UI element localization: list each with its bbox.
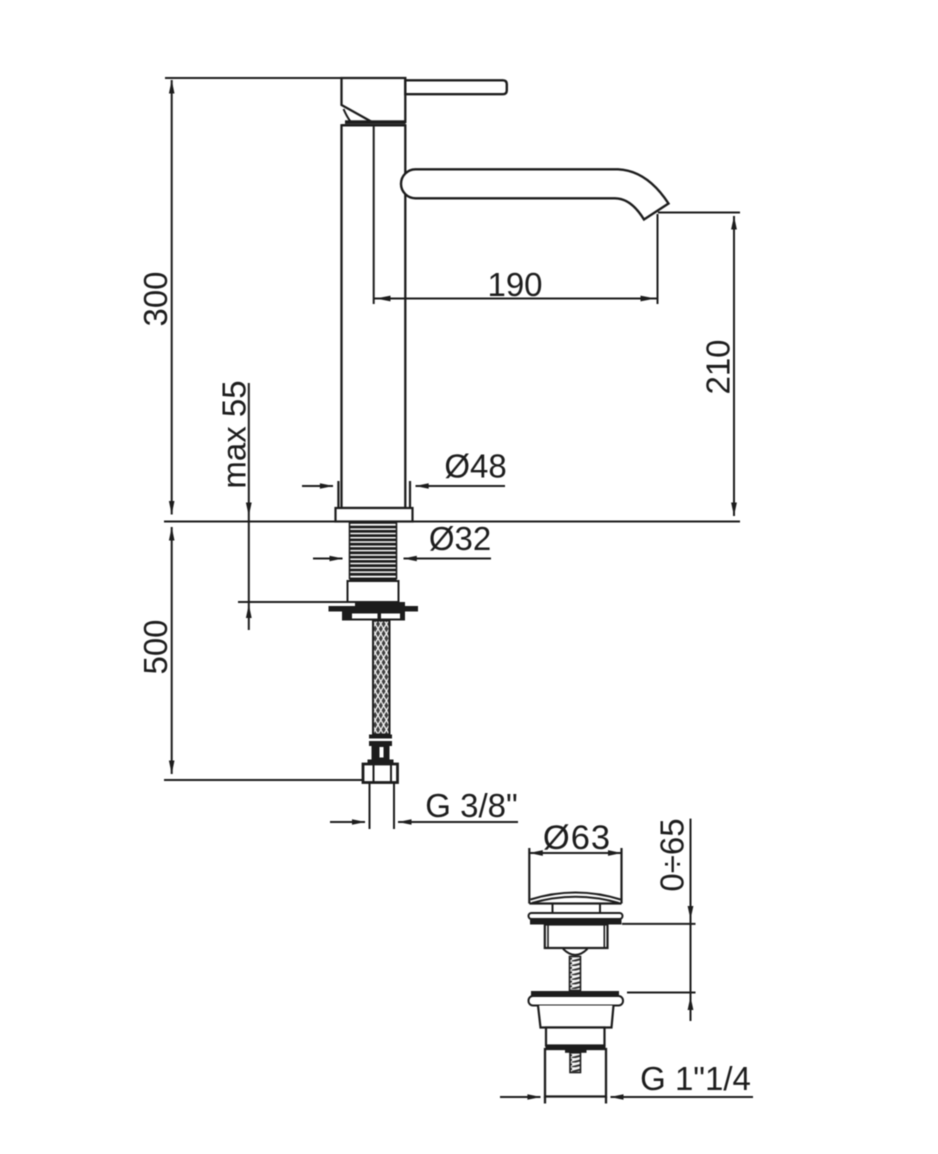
- dim G3/8 lines: [330, 821, 365, 823]
- cap bottom thick line: [345, 120, 406, 124]
- drain inset bottom thick bar: [546, 1046, 606, 1050]
- spout tip extension lines: [657, 214, 659, 304]
- dim max55 bottom extension: [238, 601, 355, 603]
- svg-text:Ø63: Ø63: [543, 819, 611, 857]
- svg-text:max 55: max 55: [216, 380, 253, 488]
- dim D32 lines: [313, 558, 343, 560]
- drain cap stem: [552, 904, 554, 914]
- dim 500 arrows: [169, 527, 175, 541]
- drain inset section: [546, 1028, 605, 1046]
- cartridge cap: [342, 78, 406, 122]
- dim 300 arrows: [169, 80, 175, 94]
- thread lines: [350, 527, 396, 574]
- dim 210 shaft: [733, 216, 735, 516]
- lever handle: [405, 80, 507, 94]
- svg-text:300: 300: [137, 271, 174, 326]
- svg-text:210: 210: [699, 339, 736, 394]
- dim 0-65 shaft: [690, 819, 692, 1021]
- mounting nut body: [355, 602, 405, 610]
- svg-text:Ø48: Ø48: [444, 448, 506, 485]
- dim G1-1/4 lines: [500, 1096, 541, 1098]
- dim G3/8 extension lines: [369, 783, 371, 829]
- dim D32 arrows: [330, 556, 344, 562]
- drain cap bottom: [529, 902, 621, 904]
- dim 190 arrows: [376, 296, 391, 302]
- faucet body column: [342, 125, 406, 508]
- base plate: [336, 508, 413, 522]
- lower washer band: [342, 612, 405, 621]
- svg-text:190: 190: [487, 266, 542, 303]
- body top line: [342, 124, 406, 126]
- cylinder side stubs: [544, 1097, 546, 1104]
- base collar: [337, 481, 339, 508]
- drain cap dome: [531, 893, 621, 900]
- hose end nut G3/8: [363, 764, 398, 783]
- drain lower flange plate: [529, 996, 624, 1006]
- dim max55 arrows: [246, 503, 252, 517]
- svg-text:Ø32: Ø32: [429, 520, 491, 557]
- svg-text:0÷65: 0÷65: [653, 818, 690, 891]
- cap tilt arc: [344, 109, 351, 122]
- hose crimp ferrule: [369, 735, 392, 739]
- braided hose: [373, 621, 390, 735]
- dim 500 bottom reference line: [164, 779, 362, 781]
- drain funnel bowl: [563, 949, 588, 955]
- svg-text:G 3/8": G 3/8": [425, 787, 517, 824]
- drain tapered collar: [538, 1006, 614, 1028]
- inner screw head: [565, 1049, 587, 1053]
- dim D48 lines: [302, 485, 333, 487]
- body centerline extension for 190 dim: [373, 126, 375, 304]
- svg-text:500: 500: [137, 619, 174, 674]
- svg-text:G 1"1/4: G 1"1/4: [640, 1060, 751, 1097]
- drain body cylinder: [545, 1049, 606, 1097]
- dim G1-1/4 arrows: [527, 1094, 541, 1100]
- inner screw thread: [570, 1053, 581, 1073]
- spout: [401, 169, 669, 219]
- basin surface line right of drain: [622, 923, 696, 925]
- dim 190 line: [374, 298, 658, 300]
- countertop line: [164, 521, 740, 523]
- drain cap side lines / D63 extensions: [528, 848, 530, 904]
- dim 300 top extension line: [165, 77, 342, 79]
- dim D63 arrows: [529, 850, 543, 856]
- dim 0-65 arrows: [688, 906, 694, 920]
- dim G3/8 arrows: [352, 819, 366, 825]
- threaded shank: [350, 523, 397, 579]
- dim 210 arrows: [731, 216, 737, 230]
- drain upper body: [545, 925, 608, 949]
- dim D63 line: [529, 852, 621, 854]
- dim D48 arrows: [320, 483, 334, 489]
- drain lower flange bar: [531, 991, 619, 996]
- drain top plate: [529, 913, 623, 919]
- dim max55 shaft: [248, 383, 250, 630]
- drain upper threaded rod: [570, 957, 581, 991]
- mounting nut wings washer: [329, 606, 419, 612]
- drain top seal bar: [530, 919, 622, 925]
- smooth tube below thread: [348, 581, 399, 602]
- dim 300/500 shaft: [171, 80, 173, 515]
- dim 0-65 reference lower line: [627, 992, 696, 994]
- thread end band: [350, 578, 397, 582]
